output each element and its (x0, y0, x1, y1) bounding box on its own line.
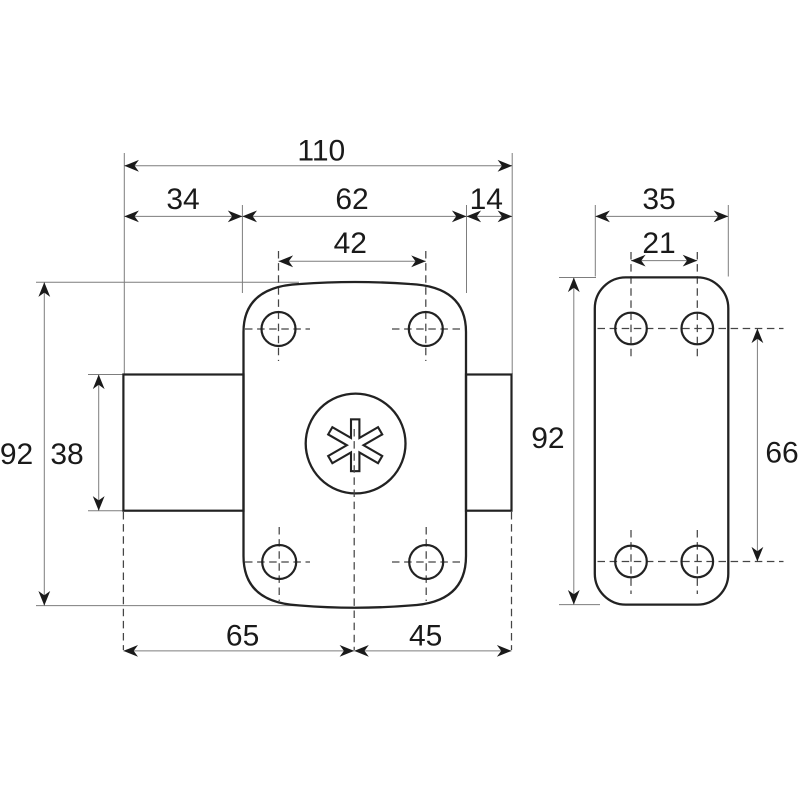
svg-text:14: 14 (470, 183, 503, 216)
keyway asterisk (330, 420, 381, 470)
wire: extension line right 110/14 (511, 153, 513, 374)
cylinder housing left (123, 375, 243, 511)
plate centerline right column top (696, 252, 698, 358)
arrow 65 left (123, 645, 138, 657)
svg-text:45: 45 (409, 619, 442, 652)
svg-text:21: 21 (642, 227, 675, 260)
plate centerline top row horizontal (598, 328, 784, 330)
dimension line 66 (756, 329, 758, 562)
dimension line 42 (279, 260, 426, 262)
plate hole top-left (615, 313, 647, 345)
wire: extension line left 110/34 (123, 153, 125, 374)
arrow 92-left top (38, 282, 50, 297)
dimension line 92 right (573, 278, 575, 605)
lock body outline (244, 282, 467, 608)
arrow 42 right (411, 255, 426, 267)
arrow 42 left (279, 255, 294, 267)
plate centerline bottom row horizontal (598, 561, 784, 563)
cylinder housing right (466, 375, 512, 511)
arrow 38 top (93, 375, 105, 390)
dimension line 35 (595, 215, 728, 217)
strike plate outline (595, 277, 729, 604)
dimension line 110 (124, 165, 512, 167)
plate hole bottom-left (615, 546, 647, 578)
svg-text:62: 62 (335, 183, 368, 216)
wire: extension line body-left 34/62 (241, 205, 243, 293)
arrow 66 top (752, 329, 764, 344)
wire: extension line right-92 bottom (559, 604, 600, 606)
arrow 92-left bottom (38, 591, 50, 606)
svg-text:42: 42 (334, 227, 367, 260)
arrow 110 right (498, 160, 513, 172)
screw hole bottom-right (409, 545, 443, 579)
cylinder circle (306, 394, 406, 494)
centerline hole bottom-left vertical (278, 527, 280, 601)
wire: extension line 38 top (88, 374, 123, 376)
dimension line 21 (631, 260, 697, 262)
extension dashed 45 right (511, 512, 513, 650)
centerline vertical main body (353, 429, 355, 650)
dimension line 38 (98, 375, 100, 511)
wire: extension line left-92 bottom (36, 605, 299, 607)
plate centerline right column bottom (696, 530, 698, 594)
arrow 21 left (631, 255, 646, 267)
svg-text:66: 66 (765, 437, 798, 470)
dimension line 92 left (43, 282, 45, 605)
centerline hole top row horizontal right (392, 328, 461, 330)
plate hole top-right (682, 313, 714, 345)
dimension line 34/62/14 (124, 215, 512, 217)
centerline hole top row horizontal left (245, 328, 310, 330)
svg-text:92: 92 (0, 438, 33, 471)
plate hole bottom-right (682, 546, 714, 578)
extension dashed 65 left (122, 512, 124, 650)
arrow 45 left (354, 645, 369, 657)
svg-text:38: 38 (50, 438, 83, 471)
arrow 65 right (340, 645, 355, 657)
arrow 92-right bottom (568, 590, 580, 605)
wire: extension line plate-left 35 (594, 205, 596, 277)
arrow 66 bottom (752, 547, 764, 562)
centerline hole top-right vertical (425, 251, 427, 361)
svg-text:110: 110 (297, 135, 345, 168)
centerline hole bottom row horizontal right (392, 561, 460, 563)
arrow 35 left (595, 211, 610, 223)
centerline hole bottom row horizontal left (245, 561, 310, 563)
wire: extension line plate-right 35 (727, 205, 729, 277)
centerline hole top-left vertical (278, 251, 280, 361)
dimension line 65/45 (123, 650, 511, 652)
screw hole bottom-left (262, 545, 296, 579)
arrow 62 right (452, 211, 467, 223)
arrow 38 bottom (93, 496, 105, 511)
arrow 92-right top (568, 278, 580, 293)
svg-text:34: 34 (166, 183, 199, 216)
arrow 110 left (124, 160, 139, 172)
screw hole top-right (409, 312, 443, 346)
wire: extension line body-right 62/14 (466, 205, 468, 293)
arrow 45 right (497, 645, 512, 657)
wire: extension line 38 bottom (88, 510, 123, 512)
plate centerline left column top (630, 252, 632, 358)
centerline hole bottom-right vertical (425, 527, 427, 601)
arrow 34 right (228, 211, 243, 223)
wire: extension line left-92 top (36, 281, 299, 283)
arrow 21 right (683, 255, 698, 267)
arrow 35 right (714, 211, 729, 223)
screw hole top-left (262, 312, 296, 346)
arrow 14 left (467, 211, 482, 223)
plate centerline left column bottom (630, 530, 632, 594)
arrow 34 left (124, 211, 139, 223)
svg-text:35: 35 (642, 183, 675, 216)
svg-text:92: 92 (531, 422, 564, 455)
wire: extension line right-92 top (559, 277, 596, 279)
svg-text:65: 65 (226, 619, 259, 652)
arrow 14 right (498, 211, 513, 223)
arrow 62 left (242, 211, 257, 223)
